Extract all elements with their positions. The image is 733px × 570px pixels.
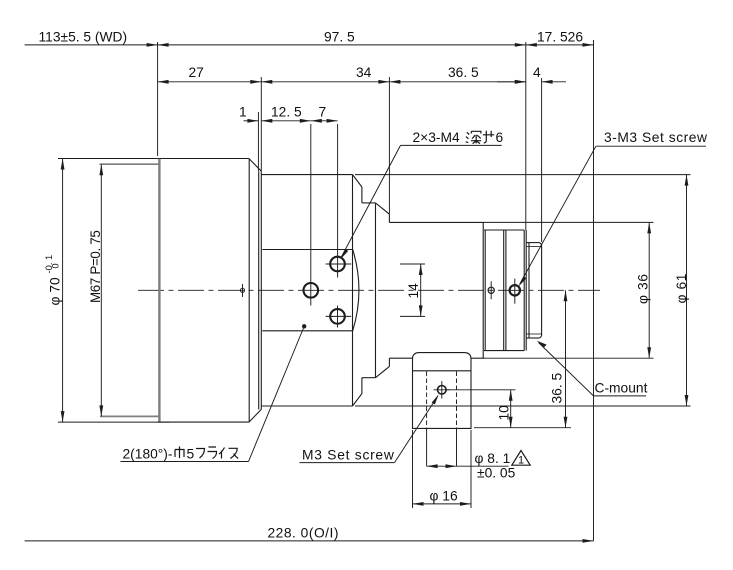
dimension 27 <box>158 65 262 84</box>
svg-text:M67 P=0. 75: M67 P=0. 75 <box>88 231 103 303</box>
kana i <box>219 448 225 459</box>
dimension 14 vertical <box>406 264 423 316</box>
svg-text:φ 61: φ 61 <box>674 273 689 304</box>
label C-mount <box>537 341 648 396</box>
svg-text:228. 0(O/I): 228. 0(O/I) <box>268 525 339 540</box>
phi8.1 hole extension solid below boss <box>413 428 472 508</box>
svg-text:27: 27 <box>189 65 204 80</box>
dimension phi36 vertical <box>636 222 652 358</box>
dimension phi70 vertical <box>43 159 64 423</box>
center target mark on front barrel face <box>240 284 244 297</box>
centerline main axis <box>138 289 600 291</box>
M4 screw hole upper <box>326 257 352 272</box>
dimension M67 P=0.75 vertical <box>88 164 103 416</box>
svg-text:34: 34 <box>356 65 372 80</box>
dimension 97.5 <box>158 30 526 47</box>
dimension 10 vertical <box>497 390 513 428</box>
dimension 113±5.5(WD) <box>25 30 158 47</box>
extension lines vertical <box>158 40 594 541</box>
svg-text:17. 526: 17. 526 <box>537 29 583 44</box>
dimension phi8.1 ±0.05 <box>427 451 516 481</box>
C-mount thread root thin lines <box>526 247 541 334</box>
svg-text:12. 5: 12. 5 <box>271 105 302 120</box>
svg-text:φ 16: φ 16 <box>430 489 458 504</box>
kana sa <box>483 131 494 143</box>
rear rings <box>484 230 526 351</box>
svg-text:36. 5: 36. 5 <box>448 65 479 80</box>
M4 screw hole center <box>304 283 319 298</box>
extension lines horizontal left phi70 <box>58 159 170 423</box>
middle block phi61 section <box>261 175 362 406</box>
revision triangle 1 <box>512 451 530 467</box>
rear M3 set screw hole <box>510 279 520 304</box>
dimension 4 <box>497 65 566 84</box>
svg-text:10: 10 <box>497 405 512 421</box>
svg-text:5: 5 <box>187 446 195 461</box>
svg-text:M3 Set screw: M3 Set screw <box>302 448 395 463</box>
dimension 7 <box>311 105 338 123</box>
label 2(180)-milled flat <box>121 324 307 461</box>
svg-text:φ 70: φ 70 <box>48 277 63 305</box>
label M3 Set screw <box>300 394 439 462</box>
svg-text:4: 4 <box>533 65 541 80</box>
dimension 12.5 <box>261 105 311 123</box>
svg-text:C-mount: C-mount <box>595 380 648 395</box>
C-mount thread section <box>526 243 541 338</box>
bottom boss <box>413 353 472 429</box>
svg-text:3-M3 Set screw: 3-M3 Set screw <box>604 130 708 145</box>
front barrel phi70 outline <box>158 159 262 423</box>
dimension phi16 <box>413 489 472 506</box>
dimension phi61 vertical <box>674 175 689 406</box>
rear small hole <box>488 281 494 299</box>
kana ra <box>208 447 217 459</box>
kana su <box>229 448 239 458</box>
dimension 1 <box>239 105 258 123</box>
svg-text:36. 5: 36. 5 <box>550 372 565 403</box>
dimension 36.5 top <box>389 65 525 84</box>
ring B section <box>362 203 390 378</box>
svg-text:97. 5: 97. 5 <box>324 30 355 45</box>
boss M3 hole <box>434 381 451 399</box>
dimension 34 <box>261 65 389 84</box>
svg-text:113±5. 5 (WD): 113±5. 5 (WD) <box>39 30 128 45</box>
kanji haba <box>175 447 184 459</box>
dimension 228.0(O/I) <box>25 525 594 543</box>
extension lines horizontal right <box>355 175 691 428</box>
main barrel phi36 <box>389 222 484 358</box>
svg-text:14: 14 <box>406 283 421 299</box>
svg-text:1: 1 <box>518 455 524 467</box>
label 2x3-M4 depth 6 <box>340 130 503 260</box>
kana fu <box>196 449 205 459</box>
svg-text:φ 8. 1: φ 8. 1 <box>475 451 511 466</box>
kanji fuka (depth) <box>466 131 482 143</box>
svg-text:-0. 1: -0. 1 <box>43 255 54 274</box>
dimension 17.526 <box>526 29 594 47</box>
M67 thread gray lines <box>100 164 159 416</box>
front face thick gray line <box>158 159 160 422</box>
dimension 36.5 vertical right <box>550 290 568 427</box>
svg-text:7: 7 <box>319 105 327 120</box>
svg-text:2×3-M4: 2×3-M4 <box>413 130 460 145</box>
M4 screw hole lower <box>326 306 352 328</box>
svg-text:6: 6 <box>496 130 504 145</box>
label 3-M3 Set screw <box>518 130 707 287</box>
svg-text:φ 36: φ 36 <box>636 273 651 304</box>
svg-text:1: 1 <box>239 105 247 120</box>
boss hidden hole dashed lines <box>427 372 457 429</box>
svg-text:2(180°)-: 2(180°)- <box>123 446 173 461</box>
svg-text:±0. 05: ±0. 05 <box>477 466 516 481</box>
